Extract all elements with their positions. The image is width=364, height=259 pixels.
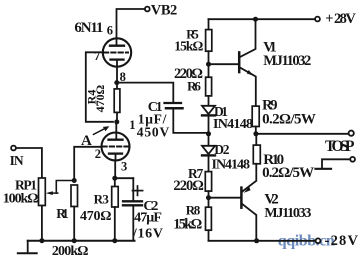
resistor R8: [173, 198, 211, 241]
svg-text:MJ11032: MJ11032: [263, 53, 311, 69]
svg-text:MJ11033: MJ11033: [264, 206, 311, 221]
node 8 junction: [114, 80, 119, 85]
svg-text:15kΩ: 15kΩ: [173, 217, 202, 233]
ground symbol: [18, 241, 37, 254]
svg-text:200kΩ: 200kΩ: [52, 244, 89, 259]
diode D1: [202, 96, 253, 134]
ground rail: [28, 238, 135, 243]
svg-text:47μF: 47μF: [134, 211, 162, 226]
node A label with arrow: [81, 126, 109, 149]
svg-text:RP1: RP1: [15, 177, 37, 192]
svg-text:470Ω: 470Ω: [93, 84, 107, 112]
svg-text:450V: 450V: [137, 125, 170, 140]
svg-text:15kΩ: 15kΩ: [174, 39, 203, 54]
svg-text:IN4148: IN4148: [212, 157, 251, 172]
transistor V1 MJ11032: [239, 19, 311, 106]
wire IN to RP1: [16, 148, 42, 178]
capacitor C2: [123, 178, 163, 241]
tube 6N11 lower triode U1b: [95, 122, 130, 173]
node V2 base: [206, 195, 211, 200]
resistor R5: [174, 19, 212, 64]
svg-text:R3: R3: [94, 192, 110, 207]
svg-text:IN4148: IN4148: [213, 117, 253, 132]
svg-text:/16V: /16V: [132, 227, 163, 242]
svg-text:6N11: 6N11: [74, 20, 103, 36]
svg-text:D2: D2: [214, 142, 230, 157]
node diode midpoint: [206, 131, 211, 136]
svg-text:0.2Ω/5W: 0.2Ω/5W: [262, 112, 316, 128]
svg-text:V2: V2: [264, 191, 278, 207]
svg-text:7: 7: [94, 49, 100, 63]
resistor R7: [173, 166, 211, 194]
svg-text:6: 6: [107, 23, 113, 37]
svg-text:IN: IN: [10, 153, 24, 168]
wire node 8 to C1: [117, 83, 174, 102]
resistor R6: [174, 64, 212, 96]
svg-text:0.2Ω/5W: 0.2Ω/5W: [262, 165, 314, 181]
wire V2 base: [209, 191, 241, 198]
resistor R4: [84, 83, 119, 122]
svg-text:1: 1: [129, 118, 135, 132]
resistor R9: [252, 98, 316, 134]
wire cathode pin 3: [114, 161, 116, 179]
+28V top rail: [209, 18, 316, 20]
tube 6N11 upper triode U1a: [74, 20, 131, 84]
resistor R10: [253, 134, 314, 181]
svg-text:R8: R8: [186, 203, 201, 218]
resistor R1: [52, 178, 89, 259]
svg-text:VB2: VB2: [151, 3, 178, 19]
wire grid pin 2 to R1/RP1 wiper: [74, 147, 102, 181]
terminal TOSP: [325, 131, 355, 155]
node V1 base: [206, 62, 211, 67]
wire node 3 to C2: [115, 177, 134, 179]
transistor V2 MJ11033: [241, 164, 311, 241]
terminal -28V: [316, 233, 359, 249]
svg-text:-28V: -28V: [325, 233, 359, 249]
wire pin 7 to node 1: [86, 52, 113, 122]
node output junction: [253, 131, 258, 136]
terminal IN: [10, 146, 24, 169]
node 1 junction: [114, 118, 135, 132]
svg-text:R1: R1: [56, 206, 69, 221]
wire output to TOSP: [256, 133, 348, 135]
svg-text:220Ω: 220Ω: [173, 178, 204, 194]
terminal +28V: [315, 11, 356, 27]
capacitor C1: [137, 100, 207, 140]
svg-text:+ 28V: + 28V: [325, 11, 356, 27]
terminal VB2: [145, 3, 177, 19]
svg-text:3: 3: [121, 159, 127, 173]
svg-text:TOSP: TOSP: [325, 138, 355, 155]
svg-text:470Ω: 470Ω: [80, 209, 112, 224]
node pin 3 junction: [112, 176, 117, 181]
wire cathode pin 8: [116, 67, 118, 83]
svg-text:100kΩ: 100kΩ: [3, 192, 39, 207]
wire RP1 bottom to ground rail: [41, 206, 43, 241]
terminal speaker return with ground stub: [316, 157, 356, 169]
resistor R3: [80, 178, 118, 241]
svg-text:2: 2: [95, 147, 101, 161]
wire V1 base: [209, 63, 239, 65]
wire VB2 to tube pin 6: [117, 9, 145, 38]
potentiometer RP1: [3, 177, 75, 206]
svg-text:R6: R6: [187, 79, 201, 94]
diode D2: [202, 134, 250, 173]
node V1 collector on rail: [253, 17, 258, 22]
-28V bottom rail: [209, 238, 316, 243]
